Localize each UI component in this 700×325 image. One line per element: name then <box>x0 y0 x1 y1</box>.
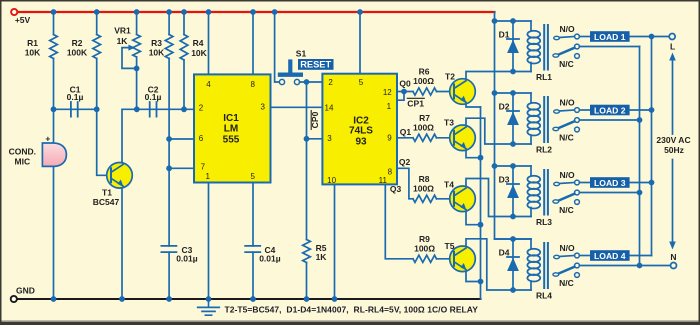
svg-text:1K: 1K <box>117 36 129 46</box>
junction live bus/LOAD1/L <box>649 34 655 40</box>
junction GND/T1 emitter <box>119 296 125 302</box>
svg-text:R4: R4 <box>193 38 204 48</box>
wire RL1 coil top feed <box>495 20 532 22</box>
capacitor C3 <box>161 245 197 264</box>
resistor R4 <box>180 35 188 61</box>
wire R1 to mic <box>53 59 55 144</box>
wire live bus (loads to L) <box>651 37 653 256</box>
junction R3 line / IC1 pin7 <box>166 165 172 171</box>
wire R8 to T4 base <box>437 198 455 200</box>
resistor R7 <box>413 134 437 141</box>
push switch S1 <box>279 62 300 85</box>
junction rail/R1 <box>51 9 57 15</box>
wire RL3 N/O to LOAD 3 <box>579 182 590 184</box>
wire RL3 common to neutral bus <box>579 192 639 194</box>
svg-text:100K: 100K <box>67 47 88 57</box>
wire LOAD 2 to live bus <box>630 109 652 111</box>
svg-text:7: 7 <box>201 163 206 172</box>
wire C3 to GND <box>168 252 170 299</box>
junction D2 anode <box>510 141 516 147</box>
wire +5V to IC1 pin 4 <box>208 12 210 74</box>
wire C1 net mic to T1-base node <box>54 108 97 110</box>
svg-text:3: 3 <box>260 103 265 112</box>
svg-text:74LS: 74LS <box>349 126 373 137</box>
svg-text:T2-T5=BC547, D1-D4=1N4007, R: T2-T5=BC547, D1-D4=1N4007, RL-RL4=5V, 10… <box>225 304 479 314</box>
svg-text:5: 5 <box>359 78 364 87</box>
relay RL4 contacts <box>553 243 580 288</box>
svg-text:R9: R9 <box>419 234 430 244</box>
junction +5V feed/RL1 <box>492 18 498 24</box>
wire RL2 N/O to LOAD 2 <box>579 109 590 111</box>
junction D4 cathode <box>510 236 516 242</box>
230V AC mains line with arrows <box>669 53 676 250</box>
RESET box label <box>298 59 334 70</box>
svg-text:N/C: N/C <box>559 205 574 215</box>
svg-text:GND: GND <box>16 286 35 296</box>
resistor R8 <box>413 195 437 202</box>
svg-text:11: 11 <box>379 176 388 185</box>
junction rail/S1 <box>272 9 278 15</box>
VR1 wiper arrowhead <box>128 45 135 51</box>
svg-text:D4: D4 <box>499 248 510 258</box>
diode D3 <box>499 166 519 217</box>
wire T4 collector to RL3 coil <box>466 179 531 217</box>
wire C2 net to IC1 pin2 <box>137 108 194 110</box>
wire RL3 coil top feed <box>495 165 532 167</box>
wire +5V to IC1 pin 8 <box>252 12 254 74</box>
transistor T4 <box>444 179 475 211</box>
junction rail/IC1 pin4 <box>206 9 212 15</box>
svg-text:L: L <box>670 41 675 51</box>
wire live bus to L terminal <box>652 36 670 38</box>
diode D4 <box>499 239 519 290</box>
svg-text:LOAD 3: LOAD 3 <box>594 178 626 188</box>
svg-text:T2: T2 <box>445 72 455 82</box>
svg-text:2: 2 <box>199 103 204 112</box>
svg-text:8: 8 <box>250 80 255 89</box>
svg-text:RL3: RL3 <box>536 217 552 227</box>
svg-text:100Ω: 100Ω <box>413 184 434 194</box>
junction VR1 / T1 collector / C2 <box>134 106 140 112</box>
relay RL4 coil <box>527 239 552 301</box>
svg-text:D1: D1 <box>499 30 510 40</box>
wire T1 collector up to C2 node <box>122 109 137 164</box>
svg-text:T1: T1 <box>102 187 112 197</box>
junction R4 / C2 net <box>181 106 187 112</box>
wire IC1 pin5 to C4 <box>252 183 254 246</box>
wire R2 to T1 base <box>97 59 111 176</box>
wire VR1 bottom to T1 collector node <box>136 57 138 109</box>
svg-text:1K: 1K <box>316 252 328 262</box>
svg-text:Q0: Q0 <box>399 79 411 89</box>
wire R9 to T5 base <box>437 258 455 260</box>
svg-text:S1: S1 <box>296 49 307 59</box>
diode D2 <box>499 93 519 144</box>
junction D3 anode <box>510 214 516 220</box>
wire S1 to IC2 pin2 reset <box>300 81 323 83</box>
svg-text:COND.: COND. <box>9 147 36 157</box>
wire T3 emitter to emitter bus <box>466 149 481 158</box>
svg-text:100Ω: 100Ω <box>413 76 434 86</box>
junction D1 cathode <box>510 18 516 24</box>
wire T5 emitter to emitter bus <box>466 270 481 281</box>
wire IC1 pin3 to IC2 pin14 (clock) <box>271 106 323 108</box>
wire R3 to C3 / IC1 pins 6,7 <box>168 59 170 246</box>
svg-text:10K: 10K <box>149 47 165 57</box>
svg-text:10K: 10K <box>191 48 207 58</box>
svg-text:IC1: IC1 <box>223 113 239 124</box>
svg-text:Q1: Q1 <box>400 127 412 137</box>
junction Q0/CP1 feedback <box>401 89 407 95</box>
wire +5V to VR1 <box>136 12 138 35</box>
svg-text:T3: T3 <box>444 118 454 128</box>
wire RL1 common to neutral bus <box>579 46 639 48</box>
svg-text:555: 555 <box>223 135 240 146</box>
wire LOAD 3 to live bus <box>630 182 652 184</box>
wire IC2 pin9 Q1 out <box>397 137 413 139</box>
junction live bus/LOAD2 <box>649 107 655 113</box>
relay RL2 coil <box>527 93 552 155</box>
svg-text:1: 1 <box>387 102 392 111</box>
svg-text:LOAD 2: LOAD 2 <box>594 105 626 115</box>
svg-text:T5: T5 <box>445 241 455 251</box>
junction GND/mic <box>51 296 57 302</box>
junction rail/IC1 pin8 <box>250 9 256 15</box>
svg-text:LOAD 4: LOAD 4 <box>594 251 626 261</box>
svg-text:230V AC: 230V AC <box>656 135 690 145</box>
VR1 wiper arm loop <box>122 48 137 69</box>
junction D3 cathode <box>510 163 516 169</box>
svg-text:4: 4 <box>206 80 211 89</box>
wire +5V feed to relay coils <box>495 12 532 239</box>
svg-text:R7: R7 <box>419 113 430 123</box>
wire neutral bus (relay commons to N) <box>640 47 671 266</box>
LOAD 2 box <box>590 105 630 116</box>
wire reset node down to R5 <box>306 82 308 240</box>
transistor T5 <box>445 241 476 272</box>
transistor T2 <box>445 72 475 105</box>
resistor R9 <box>413 255 437 262</box>
relay RL3 contacts <box>553 170 580 215</box>
wire RL4 common to neutral bus <box>579 265 639 267</box>
resistor R2 <box>93 35 101 59</box>
junction R1 line / C1 <box>51 106 57 112</box>
junction emitter bus/T5 <box>478 279 484 285</box>
capacitor C1 <box>67 84 84 116</box>
junction GND/R5 <box>304 296 310 302</box>
svg-text:RESET: RESET <box>300 60 331 70</box>
svg-text:0.1µ: 0.1µ <box>67 92 84 102</box>
junction neutral bus/RL3 common <box>637 190 643 196</box>
node +5V supply rail <box>18 11 495 13</box>
junction reset/IC2 pin3 <box>304 136 310 142</box>
terminal L <box>669 34 675 40</box>
condenser microphone MIC <box>42 134 66 167</box>
svg-text:CP1: CP1 <box>407 98 424 108</box>
svg-text:9: 9 <box>387 133 392 142</box>
wire IC2 pin10 to GND <box>334 184 336 299</box>
svg-text:R6: R6 <box>419 67 430 77</box>
svg-text:N/C: N/C <box>559 132 574 142</box>
wire RL1 N/O to LOAD 1 <box>579 36 590 38</box>
junction VR1 wiper/bottom <box>134 66 140 72</box>
LOAD 3 box <box>590 177 630 188</box>
ground symbol <box>198 299 220 315</box>
svg-text:N/O: N/O <box>559 243 575 253</box>
terminal N <box>671 263 677 269</box>
wire R5 to GND <box>306 263 308 300</box>
wire R7 to T3 base <box>437 137 455 139</box>
resistor R3 <box>165 35 173 59</box>
svg-text:0.01µ: 0.01µ <box>259 254 281 264</box>
svg-text:6: 6 <box>199 134 204 143</box>
diode D1 <box>499 21 519 72</box>
LOAD 1 box <box>590 31 630 42</box>
wire to IC2 pin 3 <box>307 138 323 140</box>
wire R4 to IC1 pin2 net <box>183 60 185 109</box>
svg-text:Q2: Q2 <box>399 157 411 167</box>
wire RL4 coil top feed <box>495 238 532 240</box>
resistor R6 <box>413 88 437 95</box>
junction +5V feed/RL3 <box>492 163 498 169</box>
wire T2 collector to RL1 coil <box>466 72 531 81</box>
wire +5V to R3 <box>168 12 170 35</box>
svg-text:100Ω: 100Ω <box>414 244 435 254</box>
svg-text:R2: R2 <box>72 38 83 48</box>
svg-text:D3: D3 <box>499 175 510 185</box>
op-amp timer IC1 LM555 <box>194 74 271 182</box>
wire +5V to S1 <box>275 12 280 82</box>
svg-text:10K: 10K <box>25 47 41 57</box>
transistor T3 <box>444 118 475 151</box>
svg-text:BC547: BC547 <box>93 197 120 207</box>
svg-text:0.01µ: 0.01µ <box>176 254 198 264</box>
relay RL1 coil <box>527 21 552 82</box>
svg-text:1: 1 <box>205 172 210 181</box>
svg-text:N: N <box>670 252 676 262</box>
node GND rail <box>18 298 481 300</box>
junction neutral bus/RL4 common <box>637 263 643 269</box>
wire IC2 pin8 Q2 out <box>397 168 413 199</box>
junction R2 line / C1 <box>94 106 100 112</box>
svg-text:T4: T4 <box>444 179 454 189</box>
relay RL1 contacts <box>553 24 580 69</box>
resistor R5 <box>303 240 311 263</box>
svg-text:+: + <box>45 134 50 144</box>
junction rail/R4 <box>181 9 187 15</box>
transistor T1 <box>107 163 133 189</box>
junction neutral bus/RL2 common <box>637 117 643 123</box>
relay RL3 coil <box>527 166 552 227</box>
svg-text:+5V: +5V <box>15 15 31 25</box>
junction S1/R5/IC2 pin3 <box>304 79 310 85</box>
svg-text:50Hz: 50Hz <box>664 145 684 155</box>
junction GND/IC1 pin1 <box>206 296 212 302</box>
junction rail/VR1 <box>134 9 140 15</box>
wire IC2 pin12 Q0 out <box>397 91 413 93</box>
svg-text:D2: D2 <box>499 102 510 112</box>
svg-text:R1: R1 <box>27 38 38 48</box>
svg-text:0.1µ: 0.1µ <box>145 92 162 102</box>
junction rail/R2 <box>94 9 100 15</box>
wire +5V to IC2 pin 5 <box>359 12 361 74</box>
junction GND/IC2 pin10 <box>332 296 338 302</box>
svg-text:5: 5 <box>250 172 255 181</box>
wire emitter bus to GND <box>480 107 482 299</box>
wire T2 emitter to emitter bus <box>466 103 481 107</box>
junction emitter bus/T4 <box>478 222 484 228</box>
wire to IC1 pin 7 <box>169 167 194 169</box>
wire R6 to T2 base <box>437 91 455 93</box>
wire T1 emitter to GND <box>121 187 123 300</box>
svg-text:RL2: RL2 <box>536 145 552 155</box>
wire IC2 pin11 Q3 out <box>385 184 413 258</box>
svg-text:N/C: N/C <box>559 59 574 69</box>
junction GND/C4 <box>250 296 256 302</box>
capacitor C4 <box>245 245 281 264</box>
wire +5V to R1 <box>53 12 55 35</box>
capacitor C2 <box>145 84 162 116</box>
svg-text:RL1: RL1 <box>536 72 552 82</box>
svg-text:VR1: VR1 <box>114 25 131 35</box>
label CP0 (clock input, rotated) <box>310 111 320 130</box>
GND terminal circle <box>11 296 17 302</box>
wire T5 collector to RL4 coil <box>466 239 531 290</box>
svg-text:R3: R3 <box>151 38 162 48</box>
svg-text:14: 14 <box>325 103 334 112</box>
svg-text:MIC: MIC <box>15 156 31 166</box>
+5V terminal circle <box>11 9 17 15</box>
relay RL2 contacts <box>553 97 580 142</box>
svg-text:N/O: N/O <box>559 97 575 107</box>
svg-text:100Ω: 100Ω <box>413 123 434 133</box>
junction D2 cathode <box>510 90 516 96</box>
wire IC1 pin1 to GND <box>208 183 210 300</box>
svg-text:LM: LM <box>224 124 238 135</box>
junction emitter bus/T3 <box>478 155 484 161</box>
counter IC2 74LS93 <box>322 74 397 185</box>
svg-text:N/O: N/O <box>559 24 575 34</box>
junction +5V feed/RL2 <box>492 90 498 96</box>
wire RL4 N/O to LOAD 4 <box>579 255 590 257</box>
svg-text:2: 2 <box>328 78 333 87</box>
LOAD 4 box <box>590 250 630 261</box>
svg-text:RL4: RL4 <box>536 291 552 301</box>
svg-text:12: 12 <box>383 88 392 97</box>
resistor R1 <box>50 35 58 59</box>
junction rail/IC2 pin5 <box>357 9 363 15</box>
svg-text:N/C: N/C <box>559 278 574 288</box>
svg-text:R8: R8 <box>419 174 430 184</box>
svg-text:LOAD 1: LOAD 1 <box>594 32 626 42</box>
wire C4 to GND <box>252 252 254 299</box>
junction D4 anode <box>510 287 516 293</box>
wire mic to GND <box>53 166 55 299</box>
junction GND/C3 <box>166 296 172 302</box>
wire T3 collector to RL2 coil <box>466 118 531 144</box>
wire LOAD 1 to live bus <box>630 36 652 38</box>
wire LOAD 4 to live bus <box>630 255 652 257</box>
wire RL2 coil top feed <box>495 92 532 94</box>
wire T4 emitter to emitter bus <box>466 210 481 225</box>
junction R3 line / IC1 pin6 <box>166 136 172 142</box>
svg-text:3: 3 <box>327 134 332 143</box>
wire to IC1 pin 6 <box>169 138 194 140</box>
svg-text:8: 8 <box>388 168 393 177</box>
potentiometer VR1 body <box>133 35 141 58</box>
wire +5V to R2 <box>96 12 98 35</box>
label CP1 (with overline) <box>407 98 424 108</box>
wire RL2 common to neutral bus <box>579 119 639 121</box>
svg-text:93: 93 <box>355 136 367 147</box>
wire +5V to R4 <box>183 12 185 35</box>
junction live bus/LOAD3 <box>649 180 655 186</box>
wire Q0 to IC2 pin1 CP1 <box>397 92 404 101</box>
junction rail/R3 <box>166 9 172 15</box>
svg-text:N/O: N/O <box>559 170 575 180</box>
junction D1 anode <box>510 69 516 75</box>
svg-text:Q3: Q3 <box>390 184 402 194</box>
